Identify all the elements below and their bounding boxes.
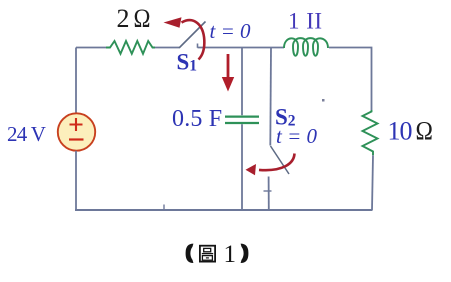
wire: top-right segment (inductor to right corner) [329,48,372,111]
wire: capacitor branch lower [241,124,243,210]
voltage source plus sign [70,118,83,131]
switch S2 red arc arrow [259,154,295,171]
wire: left vertical (source to bottom corner) [75,151,77,211]
switch S2 blade (open) [271,146,290,174]
switch S1 red arc arrow [182,20,205,59]
svg-text:0.5 F: 0.5 F [172,106,222,132]
wire: right-bottom vertical segment [372,155,373,210]
svg-text:10Ω: 10Ω [388,117,433,146]
wire: bottom horizontal [75,209,373,211]
wire: capacitor branch upper [241,48,243,116]
svg-text:S1: S1 [177,50,198,75]
wire: S2 branch lower [268,177,270,211]
inductor 1 H coil [284,38,328,56]
switch S1 blade (open) [179,22,206,49]
capacitor 0.5 F plates [225,117,259,123]
caption glyph (figure) [200,246,215,262]
wire: junction tick on bottom wire [163,205,165,210]
voltage source minus sign [69,138,84,140]
wire: segment resistor to switch S1 [155,47,179,49]
current arrow (red, downward) at capacitor branch [227,54,230,79]
switch S1 right contact tick [197,44,199,48]
svg-text:1 II: 1 II [288,8,323,33]
svg-text:t = 0: t = 0 [276,124,318,148]
resistor 2-ohm zigzag [106,41,155,54]
svg-text:1: 1 [224,241,237,268]
wire: top-left horizontal segment [76,47,106,49]
stray dot artifact [322,99,325,102]
svg-text:2Ω: 2Ω [117,4,151,33]
caption bracket right [241,244,249,263]
voltage source 24 V circle [58,113,95,150]
wire: S2 branch upper [269,48,272,146]
wire: top middle segment (S1 contact to inductor) [198,47,285,49]
resistor 10-ohm vertical zigzag [363,110,378,155]
switch S2 lower contact tick [264,190,272,192]
caption bracket left [186,244,194,263]
wire: left vertical (top corner to source) [75,48,77,114]
svg-text:24 V: 24 V [7,122,46,146]
svg-text:t = 0: t = 0 [210,19,252,43]
